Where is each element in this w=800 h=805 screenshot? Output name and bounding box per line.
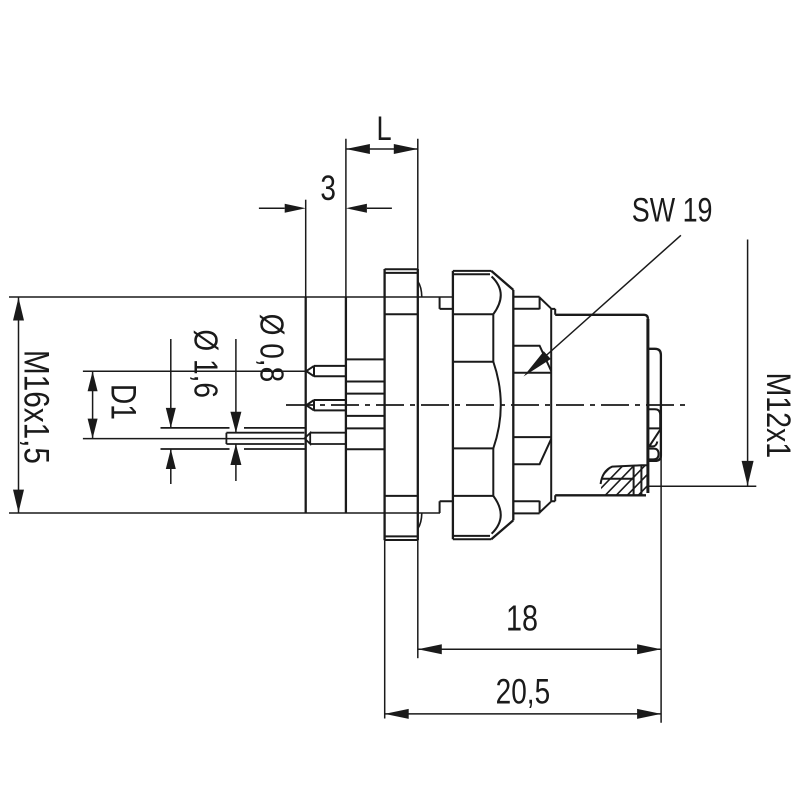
- svg-text:L: L: [377, 109, 392, 148]
- svg-text:M12x1: M12x1: [759, 373, 797, 459]
- svg-text:20,5: 20,5: [496, 671, 550, 711]
- svg-text:18: 18: [506, 597, 538, 638]
- centerline: [286, 404, 687, 406]
- wire 18 / 20,5 extension line right: [660, 455, 662, 723]
- svg-text:Ø 1,6: Ø 1,6: [187, 329, 224, 398]
- hex nut face verticals: [492, 314, 494, 496]
- insert detail band B: [649, 430, 660, 447]
- bottom contact pin Ø0,8: [226, 433, 304, 444]
- cylinder M12 top edge: [555, 315, 648, 319]
- dimension Ø1,6 line: [170, 339, 172, 484]
- bottom contact sleeve Ø1,6: [161, 428, 306, 449]
- dimension 3 line: [259, 207, 392, 209]
- dimension L extension lines: [346, 139, 418, 297]
- hex nut top edges: [453, 271, 491, 274]
- hex nut SW19 left edge: [452, 271, 454, 539]
- connector insert rear face: [305, 297, 307, 513]
- flange top edges: [385, 269, 418, 273]
- bottom contact pin tip cone: [305, 433, 311, 444]
- hex nut corner arcs: [492, 277, 501, 534]
- wire M12 extension line: [649, 485, 757, 487]
- flange right edge: [417, 269, 419, 540]
- svg-text:3: 3: [320, 168, 336, 208]
- flange inner lines: [385, 314, 418, 496]
- svg-text:SW 19: SW 19: [632, 190, 713, 229]
- flange left edge: [383, 269, 385, 540]
- insert detail band C: [649, 449, 659, 460]
- pin top (solder contact): [306, 366, 346, 376]
- svg-text:M16x1,5: M16x1,5: [17, 350, 56, 464]
- wire 20,5 extension line left: [384, 540, 386, 718]
- collar corner steps: [513, 297, 551, 514]
- hex nut face band lines: [453, 314, 493, 496]
- dimension L line: [346, 148, 418, 150]
- svg-text:D1: D1: [104, 384, 144, 420]
- thread relief steps: [440, 297, 453, 513]
- wire M16 top extension line: [9, 296, 453, 298]
- dimension M12x1 line: [747, 240, 749, 486]
- hex nut washer face: [512, 290, 514, 520]
- cylinder M12 bottom edge: [555, 494, 646, 496]
- section groove walls: [634, 465, 642, 495]
- collar right edge: [550, 308, 552, 502]
- wire 18 extension line left: [417, 540, 419, 658]
- dimension M16x1,5 line: [18, 298, 20, 513]
- collar step to cylinder: [551, 309, 555, 501]
- thread run lines: [513, 346, 551, 465]
- section divider: [602, 478, 634, 480]
- dimension 18 line: [418, 648, 661, 650]
- dimension D1 line: [92, 371, 94, 438]
- hex nut bottom edges: [453, 536, 491, 539]
- collar top/bottom edges: [513, 297, 539, 514]
- section cut outline: [601, 465, 648, 484]
- bottom contact pin inside body: [310, 433, 346, 444]
- dimension 3 extension line: [305, 200, 307, 297]
- dimension Ø0,8 line: [235, 339, 237, 481]
- hex nut chamfer diagonals: [491, 271, 513, 539]
- flange gasket arcs: [418, 281, 422, 528]
- pin middle (solder contact): [306, 400, 346, 410]
- dimension D1 extension lines: [83, 371, 306, 438]
- cylinder M12 front face: [646, 319, 649, 493]
- insert detail band A: [649, 409, 660, 428]
- connector insert front face: [345, 297, 347, 513]
- contact chamber lines: [346, 359, 384, 449]
- leader SW 19: [531, 235, 681, 369]
- dimension 20,5 line: [385, 713, 661, 715]
- front insert tab outline: [648, 349, 661, 461]
- wire M16 bottom extension line: [9, 512, 440, 514]
- svg-text:Ø 0,8: Ø 0,8: [253, 314, 290, 383]
- flange bottom edges: [385, 536, 418, 540]
